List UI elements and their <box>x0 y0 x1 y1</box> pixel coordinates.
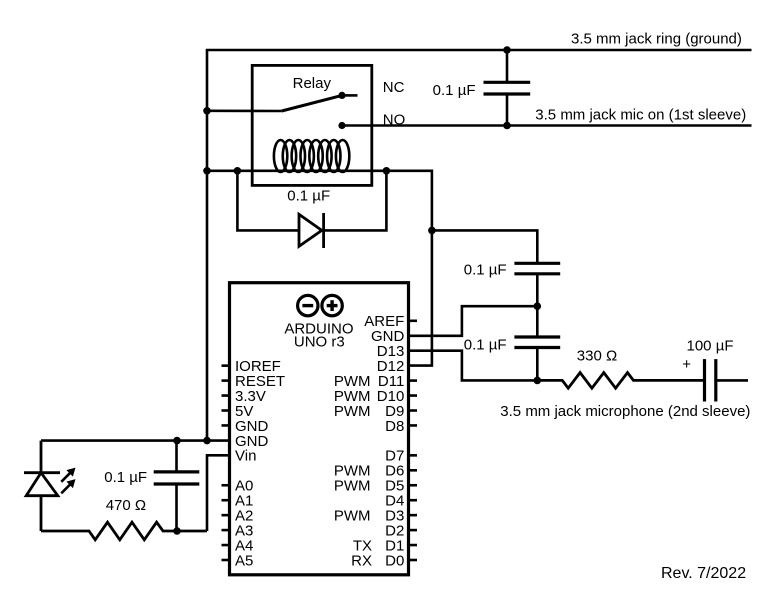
capacitor C5 0.1uF <box>154 441 200 531</box>
pin stub D7 <box>409 454 418 457</box>
svg-text:0.1 µF: 0.1 µF <box>464 262 507 279</box>
node junction C <box>534 377 542 385</box>
svg-text:UNO r3: UNO r3 <box>294 334 345 351</box>
logo plus circle <box>322 295 342 315</box>
wire flyback branch <box>237 171 386 231</box>
pin stub D9 <box>409 409 418 412</box>
pin stub A2 <box>222 514 230 517</box>
LED arrow 2 <box>61 479 75 493</box>
pin stub D5 <box>409 484 418 487</box>
pin stub D11 <box>409 379 418 382</box>
svg-text:470 Ω: 470 Ω <box>106 497 146 514</box>
node junction coil row left rail <box>203 167 211 175</box>
node junction left rail bottom <box>203 437 211 445</box>
svg-text:NC: NC <box>383 79 405 96</box>
capacitor C4 100uF polarized <box>705 359 716 401</box>
resistor R2 330 ohm <box>537 373 704 389</box>
svg-text:NO: NO <box>383 111 406 128</box>
svg-text:330 Ω: 330 Ω <box>577 348 617 365</box>
node junction common on left rail <box>203 107 211 115</box>
pin stub 5V <box>222 409 230 412</box>
wire mic-on rail from relay NO <box>342 124 752 127</box>
wire relay common from left rail <box>207 110 282 113</box>
wire D13 to node C <box>409 351 538 381</box>
svg-text:PWM: PWM <box>334 478 371 495</box>
pin stub RESET <box>222 379 230 382</box>
wire C4 to right edge <box>716 379 748 382</box>
node NC contact dot <box>338 92 345 99</box>
wire GND2 row to LED branch <box>41 439 230 442</box>
svg-text:3.5 mm jack mic on (1st sleeve: 3.5 mm jack mic on (1st sleeve) <box>535 106 746 123</box>
pin stub D8 <box>409 424 418 427</box>
pin stub A0 <box>222 484 230 487</box>
relay switch arm <box>282 95 342 111</box>
svg-text:Rev. 7/2022: Rev. 7/2022 <box>661 565 746 582</box>
node junction mic-on rail to C1 <box>503 122 511 130</box>
svg-text:0.1 µF: 0.1 µF <box>104 469 147 486</box>
capacitor C3 0.1uF <box>514 337 560 348</box>
pin stub A4 <box>222 544 230 547</box>
logo plus sign <box>327 300 338 311</box>
pin stub D6 <box>409 469 418 472</box>
inductor relay coil <box>274 140 349 172</box>
relay K1 box <box>252 65 372 185</box>
node junction C5 bottom <box>173 527 181 535</box>
pin stub D0 <box>409 559 418 562</box>
pin stub D3 <box>409 514 418 517</box>
Arduino U1 box <box>230 283 409 575</box>
svg-text:0.1 µF: 0.1 µF <box>464 337 507 354</box>
wire to C2 top <box>432 230 537 263</box>
node junction B <box>534 302 542 310</box>
node junction flyback right <box>383 167 391 175</box>
svg-text:0.1 µF: 0.1 µF <box>287 188 330 205</box>
svg-text:PWM: PWM <box>334 403 371 420</box>
wire C3 top from node B <box>536 306 539 337</box>
logo minus circle <box>298 295 318 315</box>
wire top ground rail <box>207 50 752 441</box>
svg-text:3.5 mm jack ring (ground): 3.5 mm jack ring (ground) <box>571 30 742 47</box>
wire Vin link <box>207 455 230 531</box>
wire relay coil row <box>207 171 432 366</box>
pin stub A5 <box>222 559 230 562</box>
node junction C5 top <box>173 437 181 445</box>
pin stub D4 <box>409 499 418 502</box>
pin stub 3.3V <box>222 394 230 397</box>
resistor R1 470 ohm <box>41 522 207 540</box>
wire C2 bottom to node B <box>536 274 539 306</box>
svg-text:D0: D0 <box>385 552 404 569</box>
relay NC contact stub <box>342 94 358 97</box>
pin stub IOREF <box>222 364 230 367</box>
svg-text:PWM: PWM <box>334 508 371 525</box>
pin stub D2 <box>409 529 418 532</box>
svg-text:0.1 µF: 0.1 µF <box>433 82 476 99</box>
svg-text:D8: D8 <box>385 418 404 435</box>
pin stub D1 <box>409 544 418 547</box>
node NO contact dot <box>338 122 345 129</box>
node junction top cap to ground rail <box>503 46 511 54</box>
wire C3 bottom to node C <box>536 348 539 381</box>
svg-text:+: + <box>682 356 691 373</box>
node junction flyback left <box>234 167 242 175</box>
capacitor C2 0.1uF <box>514 263 560 274</box>
svg-text:A5: A5 <box>235 552 253 569</box>
wire node B to GND pin <box>409 306 538 336</box>
pin stub AREF <box>409 319 418 322</box>
pin stub A3 <box>222 529 230 532</box>
pin stub D10 <box>409 394 418 397</box>
svg-text:100 µF: 100 µF <box>687 337 734 354</box>
pin stub GND1 <box>222 424 230 427</box>
svg-text:Vin: Vin <box>235 448 256 465</box>
svg-text:Relay: Relay <box>293 75 332 92</box>
diode D1 flyback <box>299 213 324 248</box>
logo minus sign <box>302 304 313 307</box>
svg-text:RX: RX <box>351 552 372 569</box>
LED D2 <box>24 441 60 531</box>
capacitor C1 0.1uF jack ring <box>484 50 531 126</box>
pin stub A1 <box>222 499 230 502</box>
node junction coil-end column to C2 branch <box>428 227 436 235</box>
svg-text:3.5 mm jack microphone (2nd sl: 3.5 mm jack microphone (2nd sleeve) <box>500 403 750 420</box>
LED arrow 1 <box>61 468 75 482</box>
